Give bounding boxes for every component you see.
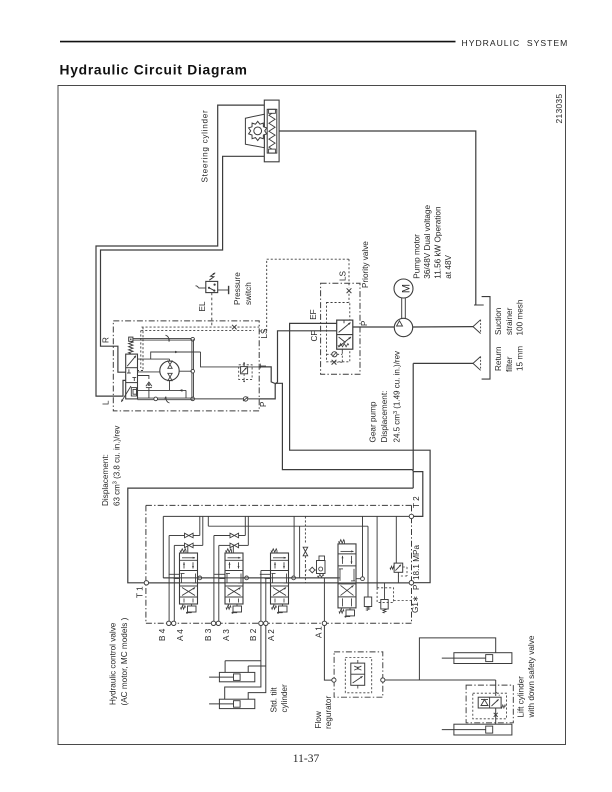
down safety valve <box>466 685 513 724</box>
label Pressure switch <box>233 272 253 305</box>
svg-text:G1∗: G1∗ <box>411 595 420 613</box>
motor shaft <box>402 298 406 318</box>
port relief valves <box>364 583 411 613</box>
steering valve top bus <box>133 335 195 342</box>
svg-text:T 1: T 1 <box>136 586 145 598</box>
label LS steering <box>260 328 269 339</box>
wire CF to steering P <box>259 331 337 399</box>
wire tank return to T1 <box>128 488 413 583</box>
steering relief valve <box>239 362 252 382</box>
label Std. tilt cylinder <box>270 684 290 712</box>
wire steering cylinder tank return <box>279 131 484 305</box>
wire B2 to tilt cylinders <box>225 626 261 700</box>
control valve second feed bus <box>208 516 368 597</box>
svg-text:A 2: A 2 <box>267 629 276 641</box>
svg-text:P: P <box>259 401 268 407</box>
steering valve right bus <box>191 339 195 401</box>
label L <box>102 400 111 405</box>
svg-text:at 48V: at 48V <box>444 254 453 278</box>
steering valve enclosure <box>113 321 259 411</box>
priority valve enclosure <box>321 283 360 374</box>
wire A2 to tilt cylinders <box>248 626 266 700</box>
tank bracket <box>482 297 490 380</box>
label Priority valve <box>361 241 370 288</box>
svg-text:Displacement:: Displacement: <box>380 391 389 443</box>
svg-text:Return: Return <box>494 346 503 371</box>
svg-text:LS: LS <box>260 328 269 339</box>
junction circles carryover <box>198 576 364 581</box>
svg-text:Suction: Suction <box>494 307 503 335</box>
svg-text:Priority valve: Priority valve <box>361 241 370 288</box>
label T steering <box>259 363 268 368</box>
label G1 <box>411 595 420 613</box>
label hydraulic control valve <box>109 617 130 705</box>
svg-text:36/48V Dual voltage: 36/48V Dual voltage <box>423 205 432 279</box>
hydraulic control valve enclosure <box>146 505 412 623</box>
svg-text:cylinder: cylinder <box>280 684 289 712</box>
label gear pump block <box>369 351 402 443</box>
spool valve section 3 (aux) <box>271 549 289 614</box>
svg-text:24.5 cm3 (1.49 cu. in.)/rev: 24.5 cm3 (1.49 cu. in.)/rev <box>393 351 402 443</box>
main relief valve <box>390 516 407 583</box>
svg-text:T: T <box>259 363 268 368</box>
svg-text:Gear pump: Gear pump <box>369 401 378 442</box>
svg-text:filter: filter <box>505 356 514 372</box>
svg-text:M: M <box>401 284 413 293</box>
LS pilot dashed line <box>259 259 351 331</box>
lift cylinder upper <box>442 653 512 664</box>
lift cylinder lower <box>442 724 512 735</box>
gear pump circle <box>394 318 412 336</box>
pressure switch <box>196 273 229 295</box>
svg-text:P: P <box>360 320 369 326</box>
svg-text:switch: switch <box>244 282 253 305</box>
control valve carryover gallery <box>163 577 339 579</box>
wire steering T return <box>259 367 413 488</box>
port T1 <box>144 581 148 585</box>
svg-text:A 4: A 4 <box>176 629 185 641</box>
svg-text:Std. tilt: Std. tilt <box>270 687 279 713</box>
wire pump suction <box>413 326 473 328</box>
svg-text:15 mm: 15 mm <box>515 346 524 371</box>
svg-text:T 2: T 2 <box>412 496 421 508</box>
steering valve spool <box>121 354 138 402</box>
suction strainer <box>473 320 481 334</box>
header text HYDRAULIC SYSTEM <box>462 38 569 48</box>
pump motor M <box>394 279 413 298</box>
svg-text:Steering cylinder: Steering cylinder <box>200 110 209 183</box>
wire return filter branch <box>413 363 473 470</box>
label EF <box>309 309 318 319</box>
label P priority <box>360 320 369 326</box>
svg-text:Pump motor: Pump motor <box>413 234 422 279</box>
drawing number 213035 <box>554 94 564 124</box>
label P steering <box>259 401 268 407</box>
page title <box>60 63 248 78</box>
carryover gallery overlay <box>149 578 410 583</box>
label T 1 <box>136 586 145 598</box>
port labels <box>158 626 324 641</box>
svg-text:CF: CF <box>310 331 319 342</box>
svg-text:Pressure: Pressure <box>233 272 242 305</box>
svg-text:with down safety valve: with down safety valve <box>527 635 536 718</box>
control valve feed bus <box>163 516 409 578</box>
wire EF to control valve P <box>290 323 431 582</box>
svg-text:L: L <box>102 400 111 405</box>
page number 11-37 <box>293 753 320 765</box>
svg-text:100 mesh: 100 mesh <box>515 299 524 335</box>
svg-text:B 2: B 2 <box>249 628 258 641</box>
gerotor metering unit <box>160 361 179 381</box>
svg-text:(AC motor, MC models ): (AC motor, MC models ) <box>120 617 129 705</box>
label Lift cylinder with down safety valve <box>517 635 537 718</box>
svg-text:Flow: Flow <box>314 711 323 728</box>
label steering displacement block <box>101 426 122 506</box>
label Flow regurator <box>314 696 333 729</box>
load check valves spool 1 <box>169 533 203 548</box>
steering valve inner connections <box>138 351 260 398</box>
svg-text:Displacement:: Displacement: <box>101 454 110 506</box>
work port drops <box>169 536 338 622</box>
spool valve section 4 (aux2) <box>338 540 356 618</box>
label LS priority <box>339 270 348 281</box>
spool valve section 2 (tilt) <box>225 549 243 614</box>
steering valve pilot head and spring <box>129 337 133 354</box>
steering valve bottom bus <box>138 396 193 403</box>
svg-text:EF: EF <box>309 309 318 319</box>
svg-text:A 1: A 1 <box>315 626 324 638</box>
wire steering cylinder R port <box>101 156 265 372</box>
port T2 <box>409 514 413 518</box>
svg-text:11-37: 11-37 <box>293 753 320 765</box>
wire A1 to flow regulator <box>324 626 331 681</box>
feed drops spool risers <box>188 516 377 587</box>
tilt cylinder lower <box>209 699 255 708</box>
wire steering cylinder L port <box>96 105 264 396</box>
priority valve dashed box <box>327 303 350 362</box>
label Steering cylinder <box>200 110 209 183</box>
steering cylinder unit <box>245 100 279 162</box>
svg-text:B 4: B 4 <box>158 628 167 641</box>
wire regulator to lift circuit <box>385 638 496 696</box>
svg-text:LS: LS <box>339 270 348 281</box>
spool valve section 1 (lift) <box>180 549 198 614</box>
electric line EL <box>198 293 212 328</box>
label R <box>102 337 111 343</box>
svg-text:HYDRAULIC SYSTEM: HYDRAULIC SYSTEM <box>462 38 569 48</box>
spool work port stubs <box>169 574 338 578</box>
anti-cavitation assembly spool 4 <box>303 516 325 583</box>
svg-text:R: R <box>102 337 111 343</box>
control valve P-T gallery <box>149 582 410 584</box>
svg-text:Lift cylinder: Lift cylinder <box>517 676 526 718</box>
svg-text:Hydraulic Circuit Diagram: Hydraulic Circuit Diagram <box>60 63 248 78</box>
wire branch to T2 <box>413 472 423 517</box>
label pump motor block <box>413 205 454 279</box>
priority valve pilot orifice <box>327 349 343 364</box>
header rule <box>60 41 456 43</box>
svg-text:Hydraulic control valve: Hydraulic control valve <box>109 622 118 705</box>
diagram border frame <box>58 86 566 745</box>
port circles bottom <box>167 621 327 625</box>
return filter <box>473 357 481 371</box>
svg-text:B 3: B 3 <box>204 628 213 641</box>
label return filter <box>494 346 524 372</box>
priority valve body <box>337 320 353 349</box>
svg-text:63 cm3 (3.8 cu. in.)/rev: 63 cm3 (3.8 cu. in.)/rev <box>112 426 121 506</box>
load check valves spool 2 <box>214 533 248 548</box>
svg-text:213035: 213035 <box>554 94 564 124</box>
steering P check valve <box>193 397 260 401</box>
svg-text:strainer: strainer <box>505 307 514 335</box>
svg-text:regurator: regurator <box>324 696 333 729</box>
wire pump discharge P <box>353 326 395 328</box>
label T 2 <box>412 496 421 508</box>
steering valve internal dashed LS box <box>138 325 260 371</box>
svg-text:11.56 kW Operation: 11.56 kW Operation <box>434 206 443 279</box>
label P 18.1 MPa <box>412 544 421 590</box>
svg-text:A 3: A 3 <box>222 629 231 641</box>
port P <box>409 581 413 585</box>
label suction strainer <box>494 299 524 335</box>
flow regulator <box>332 652 385 697</box>
tilt cylinder upper <box>209 672 255 681</box>
svg-text:EL: EL <box>198 301 207 311</box>
label CF <box>310 331 319 342</box>
